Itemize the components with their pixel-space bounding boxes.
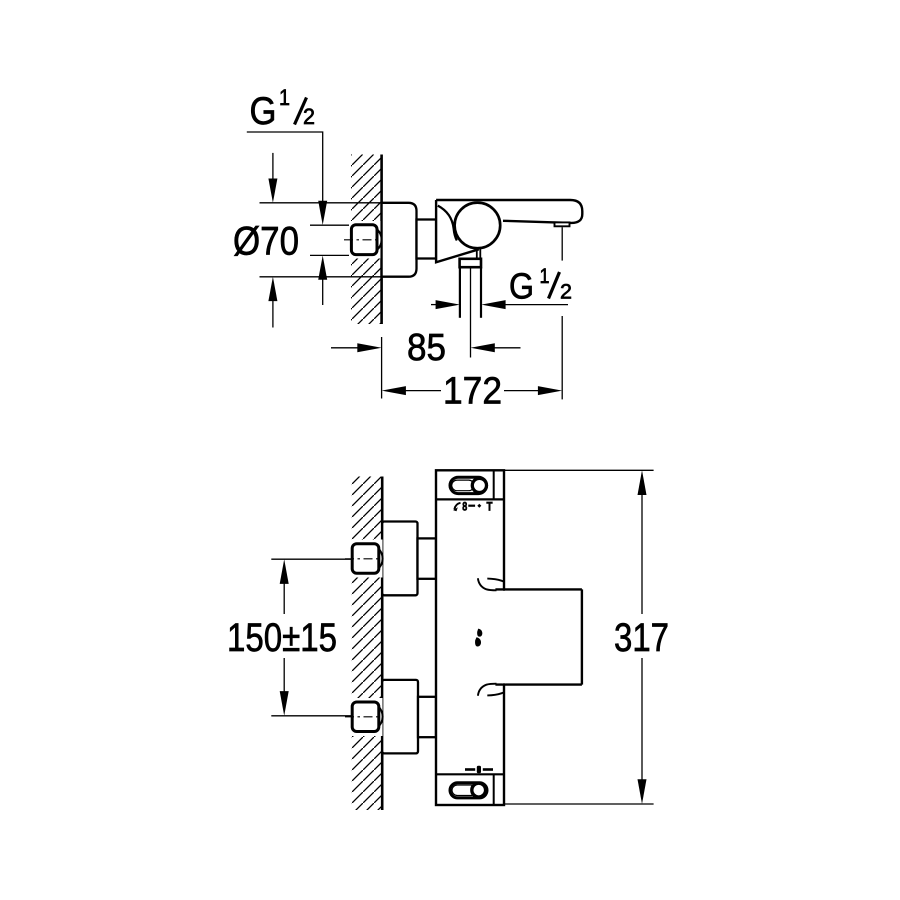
- G 1/2 leader line: [247, 132, 323, 201]
- escutcheon: [382, 203, 417, 277]
- top crescent fillet: [478, 578, 497, 590]
- bottom cap inner vertical: [493, 774, 495, 805]
- 85 dim arrow left (at wall): [331, 347, 359, 349]
- mixer block bottom edge: [495, 683, 582, 685]
- connector cylinder: [417, 220, 437, 259]
- upper union: [382, 522, 417, 596]
- top cap inner vertical: [493, 470, 495, 499]
- upper nut halo: [350, 540, 383, 578]
- aerator centerline lower segment / 172 extension: [561, 316, 563, 399]
- bottom scale icons: [465, 768, 475, 771]
- O70 arrow up: [268, 277, 277, 301]
- inner fillet curve: [438, 206, 457, 241]
- aerator: [555, 222, 570, 226]
- 150+-15 extension line upper: [271, 558, 353, 560]
- wall (hatched): [352, 477, 382, 811]
- bottom handle inner capsule: [452, 785, 476, 796]
- svg-text:85: 85: [407, 327, 446, 369]
- neck below circle: [476, 249, 478, 259]
- svg-text:1: 1: [279, 85, 290, 110]
- svg-text:T: T: [487, 500, 494, 514]
- 172 dim line + arrows: [382, 386, 406, 395]
- 317 extension line bottom: [504, 803, 654, 805]
- mixer block top edge: [495, 588, 582, 590]
- lower nut halo: [350, 698, 383, 736]
- 85 dim arrow right (at pipe center): [471, 343, 495, 352]
- nut halo: [349, 221, 382, 259]
- lower washer arc: [378, 706, 383, 728]
- nut centerline (dash-dot): [344, 239, 384, 241]
- lower nut centerline: [345, 716, 384, 718]
- aerator centerline upper segment: [561, 227, 563, 260]
- bottom cap line: [436, 773, 504, 775]
- cartridge circle: [455, 203, 501, 249]
- small logo blob: [477, 629, 482, 637]
- svg-text:172: 172: [443, 371, 502, 413]
- 317 extension line top: [504, 469, 654, 471]
- 150+-15 arrow down: [283, 658, 285, 692]
- G 1/2 arrow up to nut bottom: [318, 256, 327, 280]
- O70 dimension extension bottom: [260, 276, 382, 278]
- svg-text:317: 317: [614, 616, 669, 660]
- wall (hatched): [351, 155, 382, 325]
- upper cylinder: [418, 538, 437, 578]
- wall face line: [381, 477, 384, 811]
- G 1/2 arrow down to nut top: [318, 201, 327, 225]
- svg-text:Ø70: Ø70: [233, 220, 299, 264]
- top handle inner capsule: [452, 480, 474, 491]
- 150+-15 arrow up: [280, 559, 289, 584]
- svg-text:G: G: [509, 266, 534, 307]
- top handle capsule: [450, 477, 487, 493]
- upper nut centerline: [345, 558, 384, 560]
- wall face extension line (below wall): [381, 337, 383, 399]
- washer arc behind nut: [377, 229, 382, 251]
- top cap line: [436, 498, 504, 500]
- upper inlet nut: [352, 544, 379, 574]
- svg-text:1: 1: [540, 265, 550, 288]
- lower cylinder: [418, 697, 436, 737]
- bottom crescent fillet: [478, 684, 497, 696]
- nut extension line top: [310, 224, 352, 226]
- O70 arrow down: [272, 153, 274, 180]
- G 1/2 bottom dim arrow left: [431, 304, 438, 306]
- white gap over body right edge at block: [502, 591, 506, 684]
- bottom handle circle: [472, 783, 486, 797]
- O70 dimension extension top: [260, 202, 382, 204]
- 317 arrow down: [641, 658, 643, 780]
- svg-text:8: 8: [462, 500, 467, 514]
- svg-text:150±15: 150±15: [227, 616, 337, 660]
- body cone below: [436, 200, 479, 262]
- thermostat body: [436, 470, 504, 805]
- mixer block right edge: [581, 589, 583, 684]
- svg-text:2: 2: [560, 281, 572, 304]
- outlet collar: [460, 259, 481, 267]
- top scale icons: [454, 503, 460, 510]
- outlet pipe: [459, 267, 461, 318]
- 317 arrow up: [638, 470, 647, 495]
- inlet nut (side view): [351, 225, 377, 255]
- nut extension line bottom: [310, 254, 352, 256]
- pipe centerline / 85 extension: [470, 267, 472, 357]
- svg-text:G: G: [250, 90, 277, 133]
- G 1/2 bottom dim arrow right: [481, 300, 505, 309]
- lower inlet nut: [352, 702, 379, 732]
- 150+-15 extension line lower: [271, 715, 353, 717]
- bottom handle capsule: [450, 783, 487, 798]
- upper washer arc: [378, 548, 383, 570]
- lower union: [382, 680, 418, 754]
- spout/lever bar: [436, 200, 582, 223]
- top handle circle: [472, 478, 486, 492]
- svg-text:2: 2: [303, 104, 315, 129]
- wall face line: [380, 155, 383, 325]
